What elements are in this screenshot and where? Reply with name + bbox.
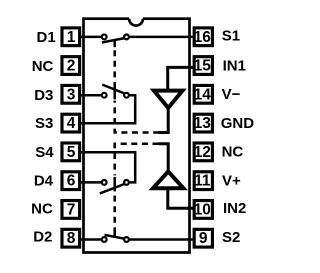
svg-text:S4: S4 [35, 144, 54, 161]
SW1 pole contact [102, 35, 107, 40]
svg-text:V−: V− [222, 86, 241, 103]
svg-text:3: 3 [67, 86, 76, 103]
svg-text:IN1: IN1 [223, 58, 246, 75]
svg-text:D3: D3 [34, 87, 53, 104]
SW3 actuator tap (solid) [113, 177, 116, 192]
control line (dashed): SW1 tap down to SW2 tap [113, 47, 116, 85]
SW2 actuator tap (solid) [113, 86, 116, 100]
wire: pin 8 D2 to SW4 pole [80, 238, 104, 241]
wire: SW2 throw down to pin 4 S3 [80, 95, 135, 123]
SW2 blade (normally open) [102, 85, 124, 94]
wire: driver U1B output to control bus 2 [159, 144, 169, 170]
pin-1 index notch at top of package [129, 17, 143, 25]
pin 15 box [194, 57, 212, 75]
SW4 throw contact [124, 237, 129, 242]
pin 12 box [194, 143, 212, 161]
svg-text:IN2: IN2 [223, 200, 246, 217]
pin 16 box [194, 28, 212, 46]
svg-text:NC: NC [32, 58, 54, 75]
SW2 throw contact [124, 93, 129, 98]
wire: pin 1 D1 to SW1 pole [80, 36, 104, 39]
wire: SW4 throw to pin 9 S2 [127, 238, 195, 241]
pin 11 box [194, 172, 212, 190]
SW1 blade (normally closed) [102, 38, 125, 42]
svg-text:6: 6 [67, 173, 76, 190]
SW4 blade (normally closed) [105, 235, 125, 239]
SW1 throw contact [124, 35, 129, 40]
pin 10 box [194, 201, 212, 219]
wire: pin 10 IN2 to driver U1B input [168, 188, 194, 208]
svg-text:9: 9 [199, 230, 208, 247]
svg-text:8: 8 [67, 230, 76, 247]
svg-text:13: 13 [194, 115, 212, 132]
pin 5 box [62, 143, 80, 161]
control line (dashed): SW3 tap down to SW4 tap [113, 193, 116, 231]
pin 14 box [194, 85, 212, 103]
svg-text:S3: S3 [35, 115, 53, 132]
svg-text:GND: GND [221, 115, 255, 132]
driver U1A (IN1 buffer triangle, points down) [154, 91, 183, 108]
svg-text:D4: D4 [34, 173, 54, 190]
control line (dashed): driver U1B output to SW3 tap [115, 144, 159, 176]
svg-text:11: 11 [194, 173, 211, 190]
pin 13 box [194, 114, 212, 132]
svg-text:V+: V+ [222, 172, 241, 189]
svg-text:4: 4 [67, 115, 76, 132]
svg-text:5: 5 [67, 144, 76, 161]
pin 6 box [62, 172, 80, 190]
wire: driver U1A output to control bus 1 [159, 107, 169, 133]
wire: pin 5 S4 down to SW3 throw [80, 152, 135, 182]
IC body outline U1 (DIP-16 package) [84, 19, 190, 253]
svg-text:15: 15 [194, 58, 212, 75]
SW3 pole contact [102, 180, 107, 185]
SW4 pole contact [102, 237, 107, 242]
wire: pin 3 D3 to SW2 pole [80, 94, 104, 97]
svg-text:S1: S1 [222, 28, 240, 45]
wire: pin 15 IN1 to driver U1A input [168, 67, 194, 90]
pin 7 box [62, 201, 80, 219]
svg-text:1: 1 [67, 29, 76, 46]
svg-text:10: 10 [194, 201, 211, 218]
svg-text:D1: D1 [37, 29, 56, 46]
svg-text:2: 2 [67, 58, 76, 75]
pin 3 box [62, 85, 80, 103]
svg-text:12: 12 [194, 144, 211, 161]
SW4 actuator tap (solid) [113, 231, 116, 238]
SW3 blade (normally open) [100, 184, 125, 193]
svg-text:7: 7 [67, 201, 76, 218]
svg-text:S2: S2 [222, 229, 240, 246]
SW2 pole contact [102, 93, 107, 98]
pin 9 box [194, 229, 212, 247]
svg-text:NC: NC [31, 200, 53, 217]
SW1 actuator tap (solid) [113, 40, 116, 47]
control line (dashed): SW2 tap to driver U1A output [115, 101, 159, 133]
svg-text:D2: D2 [33, 229, 52, 246]
pin 8 box [62, 229, 80, 247]
svg-text:NC: NC [222, 143, 244, 160]
SW3 throw contact [124, 180, 129, 185]
pin 1 box [62, 28, 80, 46]
svg-text:14: 14 [194, 86, 212, 103]
wire: pin 6 D4 to SW3 pole [80, 181, 104, 184]
wire: SW1 throw to pin 16 S1 [127, 36, 195, 39]
pin 2 box [62, 57, 80, 75]
driver U1B (IN2 buffer triangle, points up) [153, 172, 183, 189]
pin 4 box [62, 114, 80, 132]
svg-text:16: 16 [194, 29, 212, 46]
